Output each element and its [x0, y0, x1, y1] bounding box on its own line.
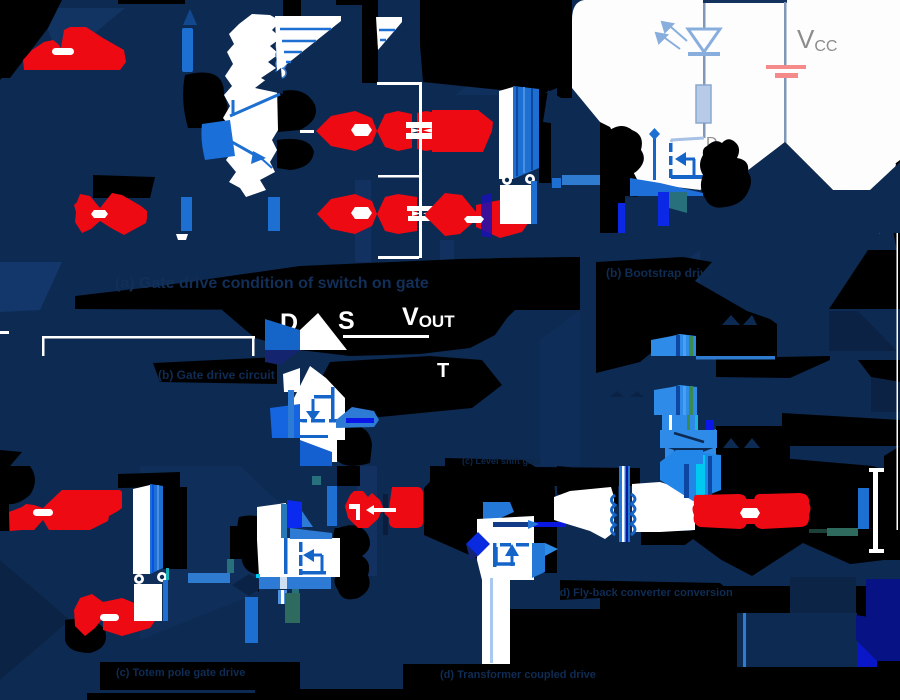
black bottom-left region (d) — [560, 580, 737, 700]
Q4 right blue triangle — [545, 543, 558, 556]
black column right of driver (c) — [163, 487, 187, 569]
blue triangle left of S — [265, 319, 300, 350]
navy diamond — [232, 574, 267, 596]
background navy panel right-middle — [580, 233, 900, 466]
black region labels D S Vout — [222, 257, 580, 356]
V1 white dash — [52, 48, 74, 55]
black region top-center — [420, 0, 572, 122]
black blob S — [700, 139, 751, 207]
black caption band (d) — [403, 664, 600, 689]
wire blue bar upper — [182, 28, 193, 72]
black notch left mid — [300, 95, 315, 115]
driver (c) white column — [133, 485, 150, 574]
mosfet (c) source bar — [301, 571, 326, 575]
pulse white T mark — [349, 504, 360, 509]
svg-text:(b) Bootstrap drive: (b) Bootstrap drive — [606, 266, 714, 280]
background navy panel mid-center — [300, 233, 580, 466]
battery wire upper — [784, 2, 787, 66]
driver wheel left — [502, 175, 512, 185]
navy arrows upper — [722, 315, 740, 325]
black band below blocks — [716, 356, 830, 378]
Q2 emitter tail — [262, 159, 272, 168]
white arrow left — [366, 505, 396, 515]
Q4 arrow up — [511, 550, 514, 566]
black caption band (b2) — [430, 466, 640, 486]
black region right of mosfet (d) — [510, 609, 600, 666]
primary coil — [612, 495, 616, 535]
white lower blob — [300, 422, 337, 462]
black bar top (T-stem) — [336, 0, 363, 5]
secondary coil — [631, 494, 635, 535]
blue slab sloping — [290, 528, 332, 539]
svg-text:(b) Gate drive circuit: (b) Gate drive circuit — [158, 368, 275, 382]
black right edge strip — [893, 164, 900, 268]
link red blob right — [754, 493, 811, 529]
background navy panel bottom-middle — [300, 466, 600, 700]
blue square node — [552, 178, 561, 188]
pmos top bar — [314, 395, 334, 399]
pentagon stripes — [696, 455, 705, 499]
black triangles (c) — [244, 580, 259, 592]
black blob left — [608, 126, 643, 175]
navy slab bottom — [737, 613, 857, 667]
black corner bottom (c) — [87, 662, 300, 700]
darker navy left of deep blue — [790, 577, 856, 613]
white pill r1 — [351, 124, 372, 136]
blue pentagon shield — [660, 450, 721, 501]
driver lower blue stripe — [531, 181, 537, 224]
black blob right of transistor pair upper — [278, 90, 316, 132]
white bracket right edge — [869, 468, 884, 472]
connection blue bar — [188, 573, 230, 583]
black blob below (b) — [337, 425, 372, 466]
svg-text:(a) Gate drive condition of sw: (a) Gate drive condition of switch on ga… — [115, 275, 429, 292]
navy slash lower — [674, 451, 704, 460]
mosfet Q4 blue square node — [483, 502, 514, 520]
wire blue bar lower-left — [181, 197, 192, 231]
black region label T — [315, 356, 502, 417]
white edge line — [897, 170, 899, 530]
navy arrows lower — [610, 391, 624, 397]
lower blue line — [290, 435, 328, 438]
teal square (c2) — [312, 476, 321, 485]
deep blue bar — [346, 418, 374, 423]
white pill r3 — [464, 216, 484, 223]
teal-blue stripe — [281, 504, 287, 538]
pmos Q3 white mound — [290, 366, 345, 440]
input wire white stub — [300, 130, 314, 133]
black corner top-left — [0, 0, 62, 78]
deep blue rect — [287, 500, 302, 528]
black corner top-right of (b) area — [829, 250, 900, 309]
teal rect — [227, 559, 234, 573]
black blob right of transistor pair lower — [277, 139, 314, 170]
isolated supply white box — [572, 0, 900, 190]
striped winding triangle left — [275, 16, 341, 72]
blue wave under mosfet — [630, 178, 703, 196]
black band above driver (c) — [118, 472, 180, 488]
white pill r2 — [351, 207, 372, 219]
teal tick — [166, 568, 169, 580]
crystal symbol white lower — [407, 206, 436, 211]
mosfet Q4 white body — [477, 516, 534, 616]
svg-text:(d) Transformer coupled drive: (d) Transformer coupled drive — [440, 669, 596, 681]
light blue vline — [490, 578, 493, 663]
driver (c) blue column — [150, 484, 163, 574]
Q4 gate dashes — [493, 543, 529, 567]
bracket white spine — [419, 82, 422, 258]
bright blue region left — [270, 404, 300, 440]
blue bar left edge pmos — [288, 390, 294, 438]
striped block upper (b) — [651, 334, 696, 356]
battery VCC plus bar — [766, 65, 806, 69]
black bottom-right region (d) — [737, 661, 900, 689]
navy mountain below link left — [643, 539, 743, 576]
svg-text:(c) Totem pole gate drive: (c) Totem pole gate drive — [116, 667, 245, 679]
resistor R1 — [696, 85, 711, 123]
navy wedge below box corner — [543, 90, 600, 130]
small white zigzag — [176, 234, 188, 240]
striped block lower (b) — [654, 385, 697, 415]
LED cathode bar — [688, 52, 720, 56]
row2 red diamond — [425, 193, 476, 236]
row2 red arrow — [476, 200, 529, 238]
teal column — [285, 593, 300, 623]
pmos gate dashes — [294, 419, 337, 423]
base node blue square — [201, 120, 235, 160]
blue tri right of rect — [302, 511, 313, 527]
gate wire navy/deep — [493, 522, 534, 527]
row2 red bowtie right lobe — [377, 194, 417, 234]
mosfet (c) white body — [257, 503, 340, 577]
driver block white column — [499, 87, 513, 179]
darker navy wedge — [829, 311, 897, 351]
navy mountain below link right — [752, 543, 877, 580]
background navy panel bottom-left — [0, 466, 300, 700]
Q1 collector arrow navy — [255, 68, 283, 94]
mosfet (c) gate dashes — [299, 542, 303, 575]
lighter navy accents — [40, 8, 125, 62]
transistor pair Q1/Q2 white body — [223, 14, 281, 197]
Q4 left diamond deep blue — [466, 532, 490, 556]
driver (c) lower blue stripe — [163, 580, 168, 621]
link red neck — [738, 499, 762, 524]
blue X bowtie upper — [665, 429, 692, 447]
deep blue region bottom right — [866, 579, 900, 622]
white fade stripe — [280, 577, 287, 589]
battery VCC minus bar — [775, 73, 798, 78]
link red blob left — [693, 494, 748, 529]
black band lower right of (b) — [716, 426, 790, 468]
black diamond around red link (d) — [660, 452, 900, 576]
electrode diamond — [649, 128, 660, 140]
left edge stub — [0, 331, 9, 334]
black corner bottom-left quadrant — [0, 466, 35, 531]
teal line right — [809, 529, 857, 533]
black caption band (b) — [153, 357, 277, 384]
LED D1 triangle — [688, 29, 720, 52]
black caption region (b) right — [596, 257, 777, 373]
Q4 white lower column — [482, 614, 510, 664]
driver (c) lower slab — [134, 584, 162, 621]
navy arrowhead below — [227, 643, 277, 660]
black right edge lower strip — [884, 446, 900, 560]
mosfet (c) body line — [284, 538, 288, 574]
gate wire light blue — [671, 138, 704, 142]
white triangle marker — [300, 313, 347, 350]
photo mosfet drain bend — [693, 159, 696, 176]
background navy panel mid-left — [0, 310, 300, 466]
V3 right lobe — [43, 490, 122, 530]
deep blue thin bar left — [618, 203, 625, 233]
source V3 red bowtie left lobe — [9, 504, 43, 531]
deep blue sliver row2 — [481, 193, 492, 238]
V2 white dash — [91, 210, 108, 218]
svg-text:(c) Level shift gate: (c) Level shift gate — [462, 456, 541, 466]
blue band below mosfet — [259, 577, 331, 589]
black wedge right lower — [858, 360, 900, 382]
link white pill — [740, 508, 760, 518]
blue vbar (c2) — [327, 486, 337, 526]
pulse source red left lobe (c2) — [345, 491, 383, 528]
black corner above (c) — [0, 450, 22, 466]
dark navy corner — [871, 377, 900, 412]
black strip below transformer white — [641, 531, 693, 545]
red arrow flag upper — [432, 110, 493, 152]
black blob left of transistor pair — [183, 73, 227, 129]
black blob below source (c) — [65, 619, 106, 653]
transformer left white blob — [554, 487, 614, 539]
Q4 source bend — [496, 547, 515, 564]
wide blue block — [660, 430, 717, 448]
bright blue lower — [300, 440, 332, 466]
black blobs left of pulse (c2) — [333, 525, 370, 599]
blue connection line — [696, 356, 775, 360]
black star — [600, 177, 630, 205]
row2 red bowtie left lobe — [317, 194, 377, 234]
mosfet left electrode line — [653, 135, 656, 180]
white blob left of pmos — [283, 368, 300, 392]
photo mosfet arrow — [678, 158, 695, 161]
striped column below — [662, 415, 698, 430]
black region top-center (d) — [424, 458, 557, 573]
driver wheel right — [525, 174, 535, 184]
bracket rung bottom — [378, 256, 419, 259]
V4 white pill — [100, 614, 119, 621]
black left wedge (d) — [557, 466, 618, 506]
wire arrowhead navy — [183, 9, 197, 25]
blue X bowtie lower — [665, 447, 692, 465]
crystal symbol white upper — [406, 122, 438, 128]
V4 right lobe — [103, 598, 157, 636]
battery wire lower — [784, 78, 787, 143]
black blob small (c) — [230, 526, 243, 559]
inductor loops — [276, 41, 286, 51]
bracket line left — [42, 336, 255, 339]
bracket rung mid — [378, 175, 419, 178]
source V4 red bowtie left lobe — [74, 594, 103, 636]
resistor lower wire — [703, 123, 706, 138]
wire blue bar lower-mid — [268, 197, 280, 231]
navy mountains over white — [630, 142, 900, 233]
Q4 right blue column — [532, 543, 545, 578]
navy slash upper — [674, 433, 704, 442]
output blue bar — [562, 175, 600, 185]
teal bit bottom — [292, 589, 299, 596]
black caption band (a) — [75, 257, 580, 310]
dark navy band — [383, 494, 388, 535]
black band above transformer — [557, 481, 617, 506]
Q2 emitter arrowhead — [251, 151, 266, 164]
pmos body line — [331, 387, 335, 421]
black bottom strip (d) — [300, 689, 900, 700]
black band above pulse source — [93, 175, 155, 198]
top wire navy — [703, 0, 787, 3]
navy arrowhead below — [272, 438, 300, 462]
led anode wire — [703, 3, 706, 29]
Q2 emitter line — [232, 142, 262, 159]
deep blue bar — [658, 192, 669, 226]
led-resistor wire — [703, 56, 706, 85]
led emission arrows — [656, 22, 687, 49]
right edge striped column — [278, 590, 287, 604]
black strip top edge — [118, 0, 185, 4]
photo mosfet Q gate dashes — [669, 143, 673, 178]
V3 white pill — [33, 509, 53, 516]
blue vbar right (d) — [858, 488, 869, 529]
svg-text:(d) Fly-back converter convers: (d) Fly-back converter conversion — [556, 587, 733, 599]
driver lower slab — [500, 185, 531, 224]
blue thin vline bottom — [743, 613, 746, 667]
input source V1 red bowtie — [23, 27, 126, 70]
gate resistor red bowtie left lobe — [316, 111, 377, 151]
white corner wedge right — [877, 162, 896, 234]
black band right lower — [782, 413, 900, 446]
mosfet (c) drain bend — [321, 555, 324, 572]
cyan dot — [256, 574, 260, 578]
bracket rung top — [377, 82, 419, 85]
svg-text:S: S — [338, 307, 355, 335]
Q1 base line — [230, 94, 280, 116]
Q1 stub — [232, 100, 235, 116]
photo mosfet source bar — [671, 175, 704, 179]
blue wing right — [336, 407, 379, 428]
pulse source red right lobe (c2) — [384, 487, 423, 528]
driver (c) wheels — [134, 574, 144, 584]
wire blue vbar lower — [245, 597, 258, 643]
driver block blue column — [513, 86, 539, 179]
cyan column above — [677, 450, 703, 464]
black wedge top (c2) — [337, 466, 360, 486]
striped winding triangle right — [376, 17, 402, 50]
driver blue stripes — [516, 87, 518, 176]
black caption band (c) — [100, 662, 255, 690]
background navy panel bottom-right upper — [600, 466, 900, 586]
transformer core stripes — [619, 466, 630, 542]
background navy panel top-left — [0, 0, 423, 310]
deep blue small rect — [706, 420, 714, 430]
deep blue triangle bottom — [857, 640, 877, 667]
transformer right white blob — [632, 482, 695, 532]
black blob left of mosfet (c) — [237, 515, 275, 574]
navy arrows on black right — [723, 438, 739, 448]
pmos arrow down — [312, 399, 315, 414]
red block right upper — [417, 111, 437, 151]
teal bar (d) — [827, 528, 858, 536]
navy fill below wave — [625, 196, 658, 233]
teal quad — [669, 192, 687, 213]
svg-text:T: T — [437, 360, 449, 382]
mosfet (c) arrow left — [306, 554, 322, 557]
input source V2 red bowtie — [74, 194, 100, 233]
black notch top — [283, 0, 301, 25]
gate resistor red bowtie right lobe — [377, 111, 412, 151]
white line under labels — [343, 335, 429, 338]
